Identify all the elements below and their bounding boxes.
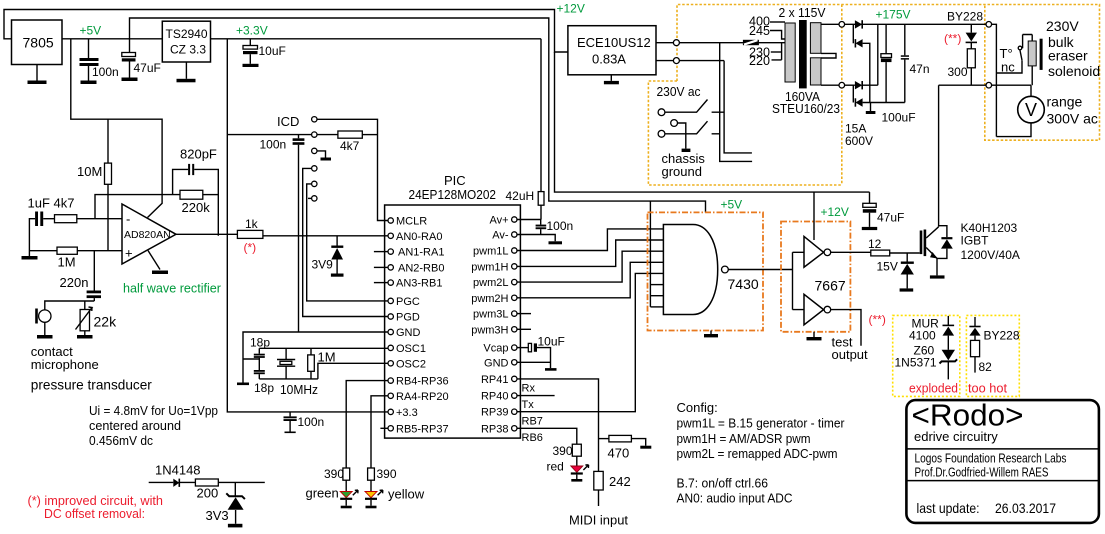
capacitor 220n [93,251,95,291]
wire 7430 input 7 tie [650,295,663,297]
tap 245 [770,31,785,40]
svg-text:+3.3: +3.3 [396,407,418,419]
wire mains line A [720,43,752,162]
svg-text:too hot: too hot [968,381,1007,396]
diode D3 [855,81,862,89]
wire RB4 to green LED [346,381,388,468]
pin OSC2 [388,361,393,366]
ICD pin 6 [312,196,317,201]
wire +5V tie for unused 7430 inputs [649,201,651,307]
svg-text:+12V: +12V [821,205,849,219]
svg-text:Prof.Dr.Godfried-Willem RAES: Prof.Dr.Godfried-Willem RAES [915,466,1049,480]
pin PGD [388,314,393,319]
svg-text:exploded: exploded [909,381,958,396]
svg-text:390: 390 [324,467,344,481]
svg-text:7667: 7667 [815,278,846,294]
inverter U4b [804,294,824,325]
wire pwm1L to 7430 input 1 [517,229,663,251]
svg-text:BY228: BY228 [947,10,983,24]
wire ICD pin1 to MCLR [317,119,388,220]
ground bar ECE [604,81,619,84]
capacitor 47uF (on +5V) [129,39,131,53]
zener 3V9 [336,236,338,246]
svg-text:12: 12 [868,237,882,251]
wire GND right [517,361,551,363]
wire +175V rail [845,23,986,25]
wire secondary bottom lead [821,84,839,86]
wire AN0 net [263,235,388,237]
svg-text:1N4148: 1N4148 [155,463,201,478]
pin RP41 [512,376,517,381]
wire 18p midpoint to ground [243,358,259,360]
svg-text:AN0-RA0: AN0-RA0 [396,231,442,243]
svg-text:100n: 100n [298,415,325,429]
transformer secondary 2 [810,58,821,85]
wire 0V return [863,102,905,104]
wire improved input [149,481,174,483]
wire IGBT collector [938,85,940,227]
svg-text:CZ 3.3: CZ 3.3 [170,43,206,57]
bubble U4b [824,306,831,313]
wire op-amp output [176,233,237,235]
node circle solenoid in [986,22,992,28]
wire RB5 stub [380,427,388,429]
ground bar input network [22,256,38,260]
resistor 10M [107,119,109,163]
ground bar 47uF 2 [862,227,877,230]
ground bar 100n [81,81,97,85]
svg-text:0.456mV dc: 0.456mV dc [89,433,153,448]
ground bar op-amp [152,271,168,275]
svg-text:300V ac: 300V ac [1047,111,1098,127]
capacitor 10uF (on +3.3V) [249,39,251,46]
ground bar 7667 [807,337,822,340]
svg-text:RB7: RB7 [522,416,543,428]
pin pwm1H [512,264,517,269]
capacitor 47n [904,24,906,55]
capacitor 18p top [258,348,260,353]
wire 7430 input 6 tie [650,284,663,286]
svg-text:1uF: 1uF [28,196,50,211]
ground bar 47uF [122,78,138,82]
svg-text:-: - [126,212,130,227]
svg-text:Vcap: Vcap [483,343,508,355]
box exploded parts (yellow) [893,315,960,396]
ground bar 15V [900,288,914,291]
wire U4a output to gate resistor [831,251,871,253]
crystal X1 10MHz [277,348,295,379]
svg-text:(**): (**) [944,32,961,46]
svg-text:pwm1H: pwm1H [471,261,508,273]
wire mains line B [724,61,752,153]
transistor Q1 IGBT [920,231,923,255]
pin MCLR [388,218,393,223]
diode D4 [852,85,854,102]
pin AN1-RA1 [388,249,393,254]
capacitor 100n (+3.3 decouple) [289,412,291,417]
svg-text:yellow: yellow [388,487,425,502]
wire 7430 input 8 tie [650,306,663,308]
pin pwm2H [512,295,517,300]
ground bar 22k [77,335,93,339]
wire solenoid bottom [1031,66,1033,85]
switch pole 1 [658,109,665,116]
svg-text:IGBT: IGBT [961,234,990,248]
wire RP39 RB7 to 7430 input 5 [517,273,663,411]
svg-text:RP40: RP40 [481,391,509,403]
resistor 4k7 (input) [55,215,77,223]
svg-text:microphone: microphone [31,357,99,372]
svg-text:B.7: on/off ctrl.66: B.7: on/off ctrl.66 [677,476,769,491]
pin Vcap [512,345,517,350]
zener 3V3 [234,482,236,496]
fuse F1 [743,40,759,45]
wire gate [890,252,920,254]
LED D green [340,492,352,498]
svg-text:GND: GND [396,327,421,339]
wire Av- to ground [517,235,555,242]
svg-text:OSC2: OSC2 [396,358,426,370]
arrow green LED [353,490,358,495]
ground bar 100n decouple [285,431,296,433]
svg-text:47uF: 47uF [134,61,161,75]
regulator TS2940 CZ 3.3 [162,21,210,62]
svg-text:pwm1L: pwm1L [473,246,508,258]
diode D2 [852,24,854,43]
svg-text:green: green [306,486,339,501]
svg-text:820pF: 820pF [180,147,217,162]
svg-text:PGC: PGC [396,296,420,308]
svg-text:0.83A: 0.83A [592,52,626,67]
zener Z60 1N5371 [942,350,955,361]
pin Av+ [512,217,517,222]
wire AN3 stub [374,282,388,284]
svg-text:AN3-RB1: AN3-RB1 [396,278,442,290]
transformer T1 primary [785,23,795,82]
thermal switch T nc [1020,49,1022,60]
svg-text:+: + [125,246,133,261]
wire op-amp V- lead [148,251,160,270]
svg-text:ICD: ICD [277,114,299,129]
box 7667 (orange) [781,222,850,332]
wire +12V drop to 7667 [813,192,815,240]
svg-text:18p: 18p [250,336,270,350]
pin RP40 [512,393,517,398]
wire RP40 Tx stub [517,395,555,397]
pin RP39 [512,409,517,414]
transformer secondary 1 [810,23,821,54]
resistor 390 (red) [572,444,581,456]
chassis ground node [671,120,678,127]
svg-text:100n: 100n [92,65,119,79]
wire TS2940 ground lead [185,62,187,79]
svg-text:RP38: RP38 [481,423,509,435]
tap 400 [770,21,785,23]
svg-text:3V9: 3V9 [312,258,334,272]
wire RP38 RB6 to red LED [517,428,577,444]
node circle on border (out2) [673,58,679,64]
ICD pin 1 [312,117,317,122]
svg-text:10uF: 10uF [259,44,286,58]
op-amp U1 AD820AN triangle [122,204,176,264]
transformer core [799,20,807,88]
svg-text:4100: 4100 [909,329,936,343]
wire GND left to ground [243,332,388,383]
svg-text:ECE10US12: ECE10US12 [577,35,651,50]
converter ECE10US12 [568,26,656,75]
wire secondary center tie [821,53,836,58]
ground bar red LED [571,479,582,482]
svg-text:Config:: Config: [677,400,718,415]
svg-text:MCLR: MCLR [396,216,427,228]
svg-text:10uF: 10uF [538,335,565,349]
ground bar 0V [870,103,872,112]
tap 220 [772,43,782,60]
resistor 220k (feedback) [180,190,203,199]
inductor 42uH [540,39,542,192]
resistor 390 (green) [343,468,350,480]
diode MUR4100 [947,316,949,326]
pin pwm3L [512,311,517,316]
svg-text:+5V: +5V [80,24,102,38]
svg-text:220n: 220n [60,275,89,290]
zener 15V [906,253,908,262]
svg-text:V: V [1025,100,1037,120]
svg-text:22k: 22k [94,314,118,330]
svg-text:242: 242 [609,474,631,489]
wire return to voltmeter [992,84,1031,86]
ground bar 3V9 [331,274,344,277]
wire voltmeter bottom loop [996,123,1031,137]
pin AN2-RB0 [388,265,393,270]
ground bar IGBT emitter [930,275,945,278]
tap 230 [771,51,782,53]
svg-text:4k7: 4k7 [340,139,360,153]
box too hot (yellow) [966,315,1019,396]
pin GND left [388,329,393,334]
wire OSC1 net [259,347,388,349]
svg-text:RA4-RP20: RA4-RP20 [396,391,449,403]
potentiometer 22k [84,301,86,310]
ICD pin 3 [312,148,317,153]
svg-text:RB6: RB6 [522,432,543,444]
resistor 1k [237,230,263,238]
wire 7430 output to 7667 [728,252,804,309]
regulator 7805 [12,20,63,65]
capacitor 100uF [885,24,887,53]
pin RP38 [512,426,517,431]
wire +5V rail [62,38,162,40]
svg-text:47uF: 47uF [877,211,904,225]
node circle solenoid return [986,82,992,88]
arrow red LED [583,465,588,470]
pin RB4-RP36 [388,378,393,383]
svg-text:42uH: 42uH [506,189,535,203]
wire ICD pin6 stub [308,197,312,199]
diode D1 [855,20,862,28]
svg-text:24EP128MO202: 24EP128MO202 [409,187,497,202]
svg-text:pwm3H: pwm3H [471,324,508,336]
svg-text:1200V/40A: 1200V/40A [961,248,1020,262]
capacitor 1uF [35,212,38,227]
pin RA4-RP20 [388,393,393,398]
svg-text:230V: 230V [1046,18,1079,34]
svg-text:3V3: 3V3 [206,508,229,523]
svg-text:+5V: +5V [721,198,743,212]
wire +3.3V rail [211,38,542,40]
wire +3.3V drop to ICD and PIC +3.3 pin [227,39,388,412]
capacitor 820pF [173,169,189,194]
resistor 1M (bias to ground) [29,250,57,252]
svg-text:15V: 15V [877,260,898,274]
LED D yellow [365,492,377,498]
wire feedback node [95,195,180,219]
svg-text:STEU160/23: STEU160/23 [772,101,840,116]
diode 1N4148 [173,479,179,487]
svg-text:Logos Foundation Research Labs: Logos Foundation Research Labs [915,452,1067,466]
svg-text:eraser: eraser [1048,48,1088,64]
wire OSC2 net [318,363,388,379]
svg-text:390: 390 [553,444,573,458]
svg-text:220: 220 [749,53,770,68]
svg-text:AN1-RA1: AN1-RA1 [398,247,444,259]
svg-text:pressure transducer: pressure transducer [31,377,152,393]
wire lower tap [845,84,855,86]
capacitor 100n (on +5V) [88,39,90,58]
wire RP41 Rx to MIDI [517,379,599,472]
svg-text:pwm2H: pwm2H [471,293,508,305]
ICD pin 4 [312,166,317,171]
svg-text:Ui = 4.8mV for Uo=1Vpp: Ui = 4.8mV for Uo=1Vpp [89,403,218,418]
svg-text:7430: 7430 [728,276,759,292]
capacitor 18p bottom [254,370,265,372]
svg-text:26.03.2017: 26.03.2017 [995,500,1056,516]
svg-text:1N5371: 1N5371 [895,356,937,370]
resistor 470 [599,438,609,440]
wire solenoid return [939,84,986,86]
pin RB5-RP37 [388,426,393,431]
pin pwm2L [512,279,517,284]
svg-text:centered around: centered around [89,418,181,433]
wire U4b test output [831,310,861,346]
wire pwm3H stub [517,328,531,330]
ground bar 10uF [243,64,259,67]
ground bar Av- [549,241,563,244]
pin GND right [512,360,517,365]
pin pwm1L [512,248,517,253]
svg-text:AN0: audio input ADC: AN0: audio input ADC [677,491,793,506]
ICD pin 2 [312,132,317,137]
ground bar chassis [682,149,691,152]
capacitor 100n (ICD) [298,135,300,139]
node circle secondary bottom [839,82,845,88]
svg-text:GND: GND [484,357,509,369]
svg-text:Av-: Av- [492,230,509,242]
svg-text:82: 82 [979,360,993,374]
pin +3.3 [388,409,393,414]
wire RA4 to yellow LED [371,396,388,468]
svg-text:7805: 7805 [23,35,54,51]
svg-text:MIDI input: MIDI input [569,513,628,528]
wire inverting input [77,218,122,220]
wire crystal bottom rail [259,378,318,380]
svg-text:220k: 220k [182,200,211,215]
resistor 300 [967,49,975,68]
svg-text:half wave rectifier: half wave rectifier [123,281,222,296]
svg-text:4k7: 4k7 [54,196,75,211]
svg-text:200: 200 [197,486,219,501]
resistor 12 (gate) [871,250,890,256]
svg-text:pwm1L = B.15 generator - timer: pwm1L = B.15 generator - timer [677,416,846,431]
capacitor 100n (Av) [540,220,542,225]
wire pwm2H to 7430 input 4 [517,262,663,298]
box 7430 (orange) [648,212,764,330]
svg-text:solenoid: solenoid [1048,63,1100,79]
inverter U4a [804,236,824,267]
pin AN0-RA0 [388,233,393,238]
svg-text:OSC1: OSC1 [396,343,426,355]
solenoid core bar [1040,39,1043,70]
svg-text:nc: nc [1001,60,1015,75]
wire Av+ [517,219,541,221]
svg-text:(**): (**) [869,313,886,327]
svg-text:pwm3L: pwm3L [473,309,508,321]
diode freewheel (IGBT) [939,226,947,237]
wire +5V branch to opamp bias [71,39,162,218]
title block Rodo [906,400,1099,523]
wire +12V top rail [4,10,568,53]
resistor 200 [195,479,218,486]
svg-text:pwm1H = AM/ADSR pwm: pwm1H = AM/ADSR pwm [677,431,811,446]
pin Av- [512,232,517,237]
bubble U4a [824,249,831,256]
svg-text:AN2-RB0: AN2-RB0 [398,262,444,274]
svg-text:+175V: +175V [876,8,911,22]
svg-text:Tx: Tx [522,399,535,411]
wire +3.3V to ICD pin2 [227,134,311,136]
svg-text:300: 300 [948,65,968,79]
border mains box (gold) [648,5,1099,186]
svg-text:TS2940: TS2940 [166,27,208,41]
svg-text:10M: 10M [77,164,102,179]
diode BY228 (too hot) [974,317,976,327]
ground bar ICD [321,158,332,161]
pin AN3-RB1 [388,280,393,285]
ground bar yellow LED [366,506,377,509]
svg-text:18p: 18p [254,381,274,395]
wire 7430 ground lead [710,331,712,335]
node circle secondary top [839,22,845,28]
resistor 1M (crystal) [310,348,312,355]
svg-text:230V ac: 230V ac [657,84,701,99]
svg-text:1k: 1k [245,217,259,231]
ground bar 7430 [704,334,718,337]
svg-text:PIC: PIC [444,173,466,188]
svg-text:10MHz: 10MHz [280,382,318,397]
wire AN1 stub [374,251,388,253]
wire solenoid feed [992,24,1022,136]
svg-text:1M: 1M [58,255,76,270]
svg-text:range: range [1047,94,1083,110]
svg-text:edrive circuitry: edrive circuitry [914,429,998,444]
wire ECE output 1 (to fuse and primary) [656,42,785,44]
wire AN2 stub [374,266,388,268]
svg-text:red: red [547,460,564,474]
wire ICD pin3 to ground [317,151,326,158]
LED D red [571,466,583,472]
wire 7805 ground lead [36,65,38,81]
svg-text:100n: 100n [260,138,287,152]
